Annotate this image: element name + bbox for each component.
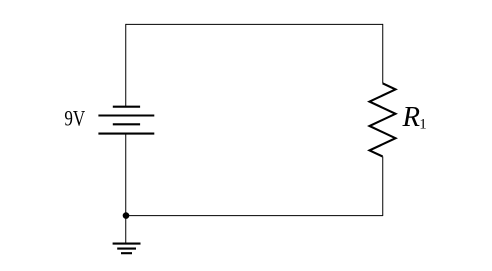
wire ground lead [125, 216, 127, 243]
ground [113, 244, 141, 254]
svg-text:1: 1 [419, 117, 427, 133]
resistor R1 [370, 83, 396, 156]
wire top: node + rail [126, 23, 383, 25]
label 9V [64, 105, 85, 130]
node junction dot [123, 212, 130, 219]
wire left lower (battery - plate to bottom node) [125, 134, 127, 216]
wire bottom rail [126, 215, 383, 217]
battery V1 (9V source) [98, 107, 154, 134]
wire right lower (resistor to bottom rail) [382, 157, 384, 216]
label R1 [402, 101, 427, 133]
svg-text:R: R [402, 101, 421, 133]
wire left upper (top rail to battery + plate) [125, 24, 127, 107]
svg-text:9V: 9V [64, 105, 85, 130]
wire right upper (top rail to resistor) [382, 24, 384, 83]
